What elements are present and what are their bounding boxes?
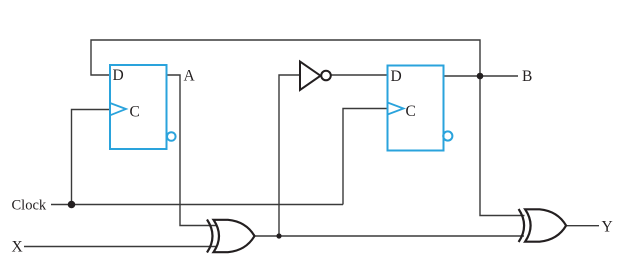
wire XOR G2 output to Y bbox=[566, 225, 599, 227]
XOR gate G2 bbox=[519, 209, 567, 242]
wire feedback B to D of flip-flop A bbox=[91, 40, 480, 76]
svg-text:A: A bbox=[184, 68, 196, 85]
svg-text:X: X bbox=[12, 238, 23, 255]
svg-text:D: D bbox=[113, 67, 124, 84]
svg-text:Y: Y bbox=[602, 218, 613, 235]
wire G1 output to XOR G2 bottom input bbox=[279, 235, 524, 237]
svg-text:C: C bbox=[130, 104, 140, 121]
wire B output bbox=[444, 75, 519, 77]
svg-text:D: D bbox=[391, 68, 402, 85]
wire clock to C of flip-flop B bbox=[343, 109, 388, 205]
inverter G3 bbox=[300, 62, 331, 91]
wire X input to XOR G1 bottom input bbox=[24, 246, 217, 248]
wire node B down to XOR G2 top input bbox=[480, 76, 525, 216]
D flip-flop A body bbox=[110, 65, 176, 149]
node clock junction bbox=[68, 201, 76, 209]
wire A output to XOR G1 top input bbox=[167, 75, 218, 226]
svg-text:C: C bbox=[406, 103, 416, 120]
wire clock line bbox=[51, 204, 343, 206]
D flip-flop B body bbox=[388, 66, 453, 151]
wire clock to C of flip-flop A bbox=[72, 110, 111, 205]
node B junction bbox=[477, 73, 484, 80]
node G1 output junction bbox=[276, 233, 281, 238]
svg-text:Clock: Clock bbox=[12, 197, 47, 213]
wire inverter output to D of flip-flop B bbox=[331, 74, 388, 76]
wire G1 output up to inverter input bbox=[279, 75, 300, 236]
wire XOR G1 output bbox=[254, 235, 280, 237]
XOR gate G1 bbox=[207, 220, 255, 253]
svg-text:B: B bbox=[522, 68, 532, 85]
